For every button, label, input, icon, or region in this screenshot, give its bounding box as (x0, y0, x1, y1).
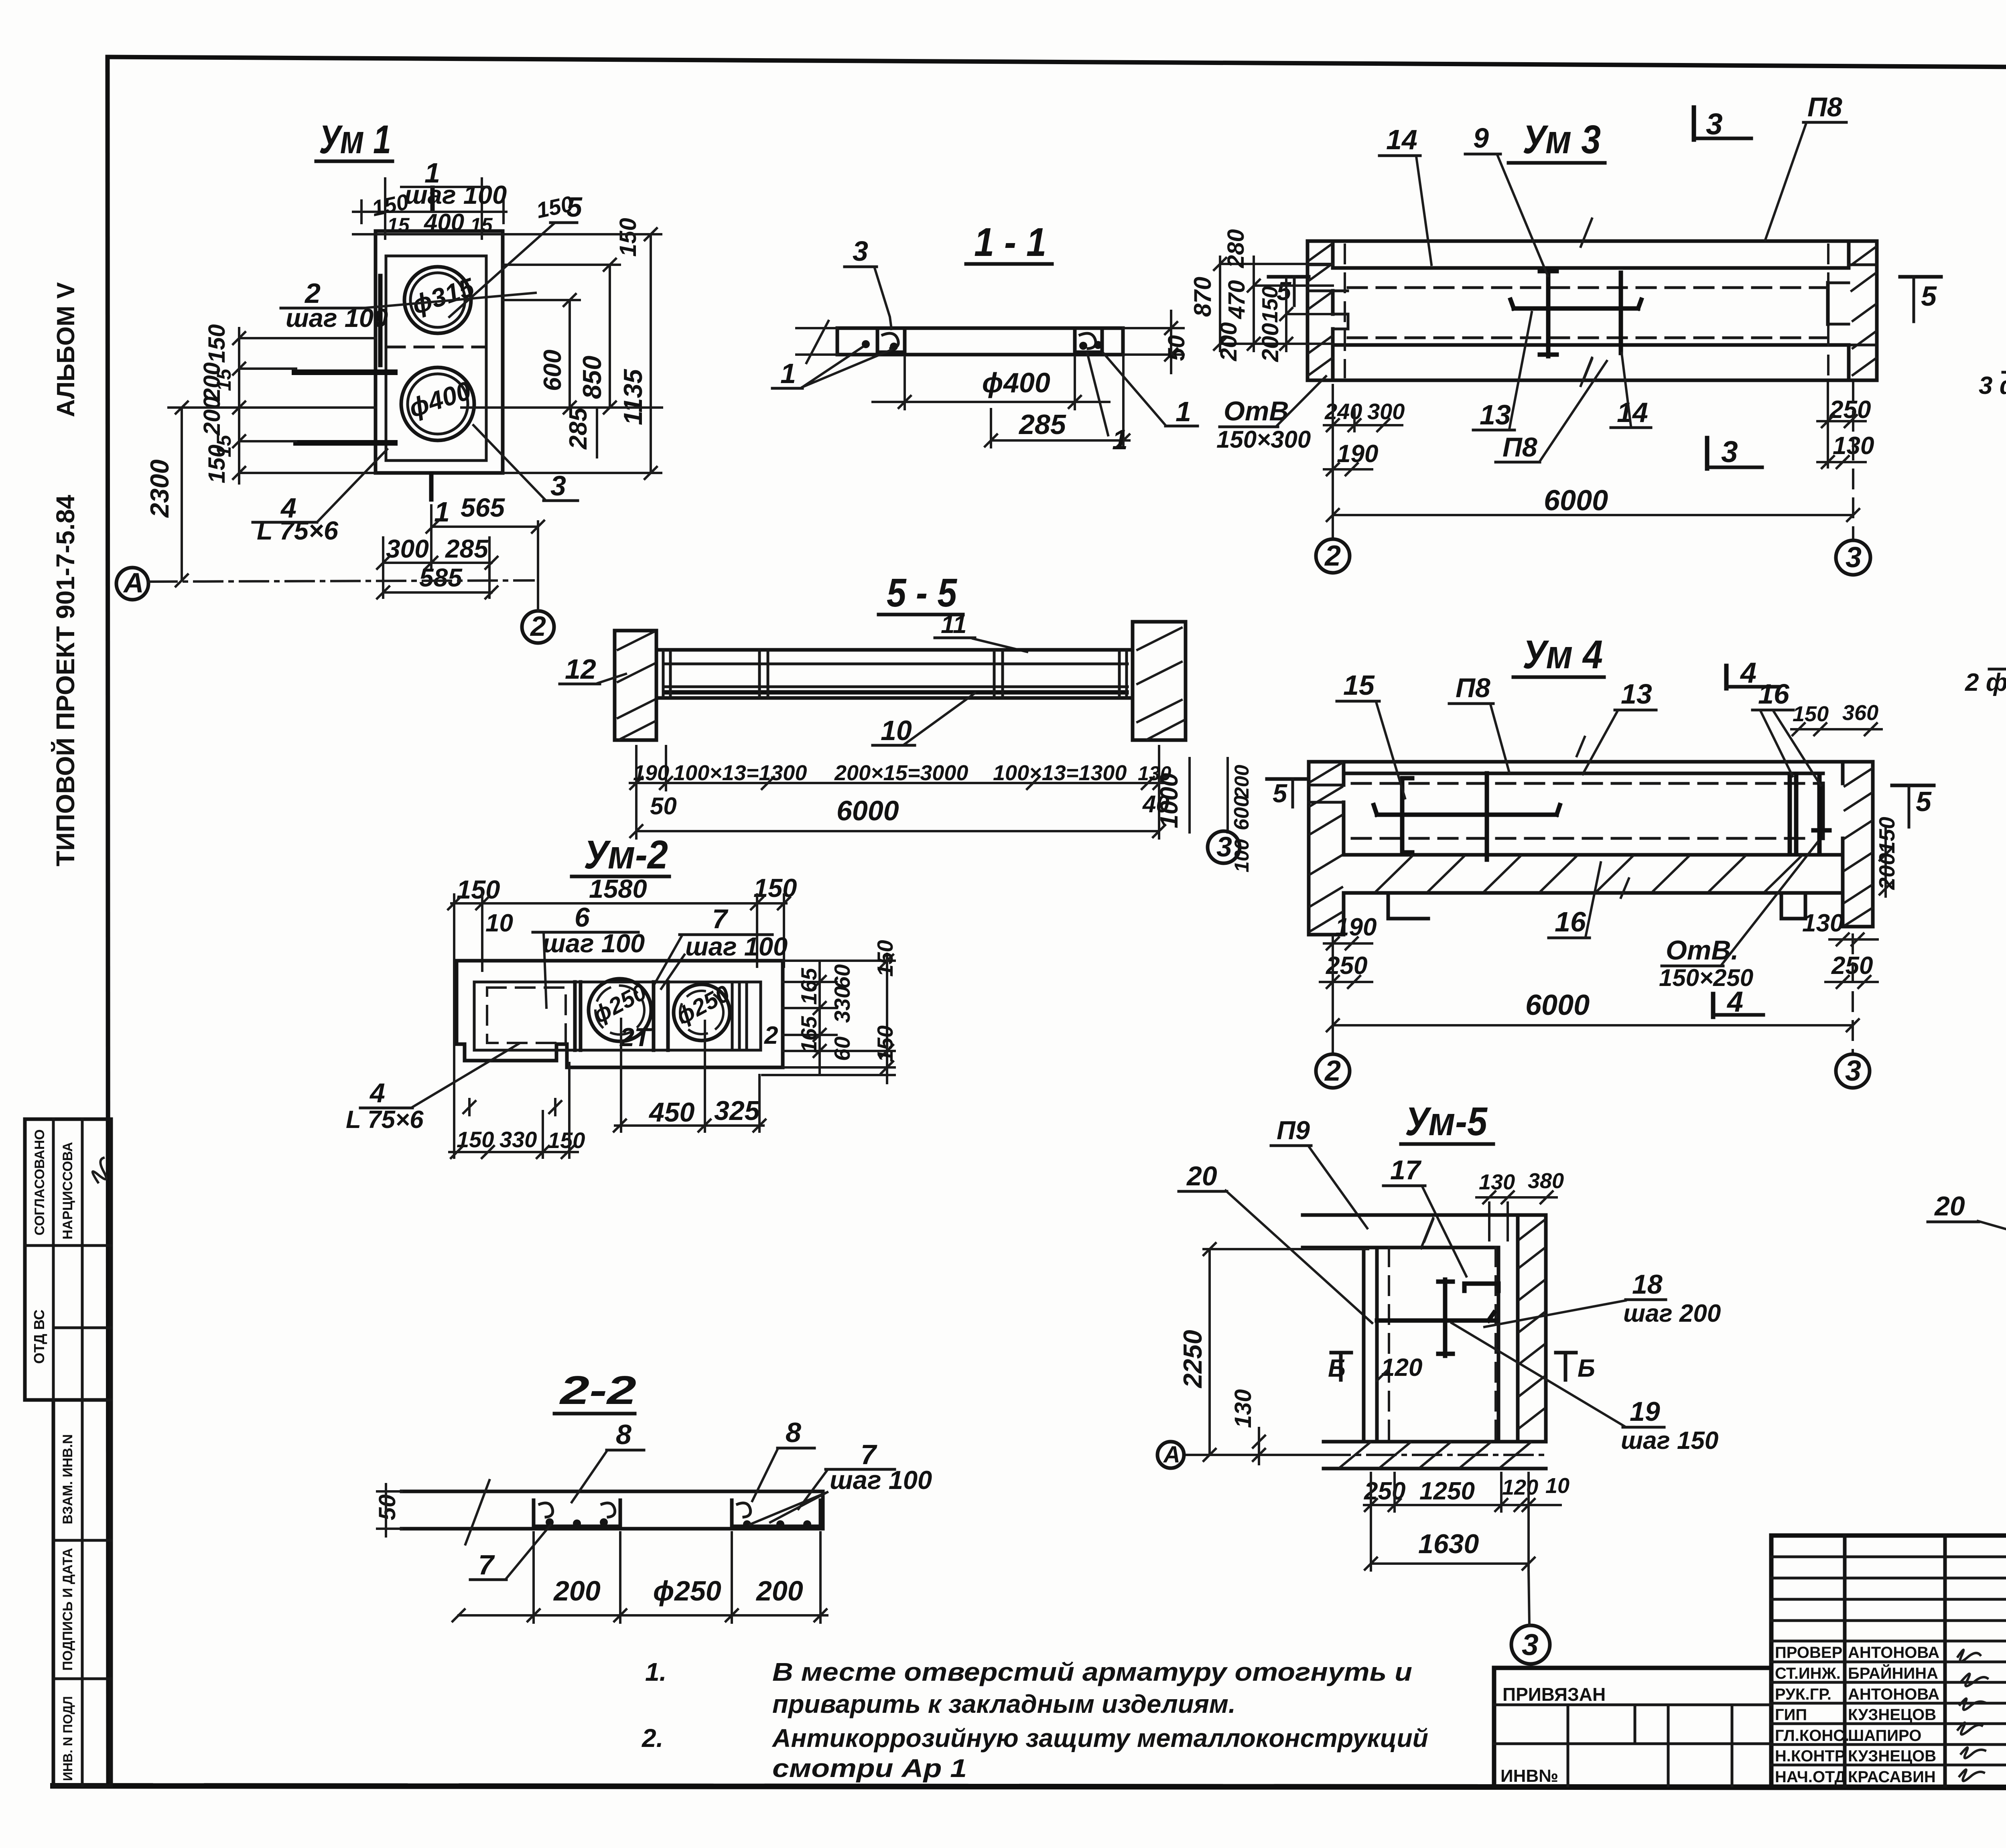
svg-text:3: 3 (1216, 831, 1232, 862)
svg-text:19: 19 (1630, 1396, 1660, 1427)
svg-text:3: 3 (1721, 435, 1738, 469)
left embedded channel (877, 330, 905, 352)
executors table verticals (1843, 1536, 1847, 1786)
svg-text:850: 850 (577, 356, 607, 399)
svg-text:ТИПОВОЙ ПРОЕКТ 901-7-5.84: ТИПОВОЙ ПРОЕКТ 901-7-5.84 (51, 495, 80, 866)
left sidebar vertical captions (51, 282, 80, 866)
axis 3 circle (1208, 831, 1240, 863)
svg-text:150×300: 150×300 (1216, 426, 1311, 453)
svg-text:Н.КОНТР: Н.КОНТР (1775, 1747, 1846, 1765)
right support hatch (1137, 628, 1184, 739)
svg-text:5: 5 (1916, 786, 1932, 817)
svg-text:120: 120 (1381, 1354, 1422, 1381)
right extension lines (461, 234, 662, 473)
svg-text:585: 585 (419, 563, 463, 592)
svg-text:Ум 1: Ум 1 (319, 117, 391, 162)
left inner wall (1364, 1248, 1377, 1442)
svg-text:200: 200 (199, 362, 225, 402)
top dim line 2 (353, 233, 506, 235)
svg-text:60: 60 (830, 1036, 855, 1061)
svg-text:Б: Б (1328, 1355, 1346, 1382)
svg-text:870: 870 (1189, 277, 1216, 317)
svg-text:150: 150 (615, 218, 641, 257)
svg-text:13: 13 (1480, 399, 1511, 430)
svg-text:В месте отверстий арматуру ото: В месте отверстий арматуру отогнуть и (772, 1657, 1412, 1686)
svg-text:Ум 4: Ум 4 (1523, 632, 1603, 677)
svg-text:П8: П8 (1807, 92, 1842, 122)
svg-text:Ум-2: Ум-2 (584, 832, 668, 877)
svg-text:шаг 100: шаг 100 (685, 932, 788, 961)
svg-text:1 - 1: 1 - 1 (974, 220, 1046, 265)
svg-text:450: 450 (648, 1097, 695, 1128)
svg-text:10: 10 (485, 909, 513, 937)
svg-text:шаг 150: шаг 150 (1621, 1427, 1718, 1454)
slab outline (402, 1491, 823, 1529)
left support wall (615, 631, 656, 740)
svg-text:6000: 6000 (837, 795, 899, 826)
svg-text:ВЗАМ. ИНВ.N: ВЗАМ. ИНВ.N (60, 1434, 75, 1524)
svg-text:5 - 5: 5 - 5 (887, 570, 957, 615)
svg-text:1.: 1. (645, 1657, 666, 1686)
svg-text:4: 4 (1740, 657, 1756, 689)
svg-text:3: 3 (1845, 1055, 1861, 1087)
main rebar thick (666, 690, 1127, 695)
left attach block (1494, 1704, 1771, 1706)
svg-text:НАЧ.ОТД: НАЧ.ОТД (1775, 1768, 1846, 1786)
svg-text:190: 190 (1335, 913, 1377, 941)
svg-text:150: 150 (1874, 817, 1899, 854)
section mark 5 right (1900, 275, 1941, 279)
title underline (1401, 1142, 1493, 1146)
svg-text:150: 150 (457, 875, 500, 904)
svg-text:100×13=1300: 100×13=1300 (673, 761, 807, 785)
svg-text:200: 200 (1230, 765, 1253, 799)
svg-text:ПРИВЯЗАН: ПРИВЯЗАН (1502, 1684, 1606, 1705)
stirrup 14 right (1619, 273, 1623, 353)
right inner wall (1498, 1215, 1518, 1442)
svg-text:150: 150 (204, 444, 230, 483)
rebar dots (743, 1520, 751, 1528)
extension verticals (1332, 937, 1334, 1054)
top wall band (1303, 1215, 1546, 1248)
svg-text:200×15=3000: 200×15=3000 (834, 761, 968, 785)
right support wall (1133, 622, 1186, 740)
slab outline (837, 328, 1123, 355)
right dim 600 (569, 300, 571, 408)
left support hatch (618, 632, 655, 739)
svg-text:2Т: 2Т (619, 1022, 652, 1052)
svg-text:285: 285 (564, 407, 592, 450)
svg-text:1: 1 (1112, 424, 1128, 455)
svg-text:3: 3 (853, 235, 868, 267)
svg-text:ɸ400: ɸ400 (982, 367, 1050, 398)
executors rows (1771, 1556, 2006, 1558)
section mark 5 right (1892, 784, 1934, 787)
mid dashed line (386, 346, 486, 349)
svg-text:L 75×6: L 75×6 (257, 516, 339, 545)
svg-text:3 ф16АШ: 3 ф16АШ (1979, 372, 2006, 400)
rebar dots right (1079, 342, 1087, 350)
svg-text:2: 2 (1324, 1055, 1341, 1087)
title block (1494, 1536, 2006, 1830)
beam inner top (663, 663, 1127, 665)
svg-text:1250: 1250 (1419, 1477, 1475, 1505)
axis circle 2 (1316, 539, 1350, 573)
left wall band (1309, 762, 1344, 935)
frame left line (108, 57, 108, 1786)
left break (465, 1480, 489, 1544)
bottom dim chain (630, 782, 1163, 784)
left embedded channel (534, 1500, 620, 1526)
floor step left (1388, 893, 1428, 919)
svg-text:приварить к закладным изделиям: приварить к закладным изделиям. (772, 1690, 1236, 1718)
svg-text:ОТД ВС: ОТД ВС (31, 1310, 47, 1364)
break marks (1577, 737, 1629, 898)
left dim chain (238, 328, 240, 483)
svg-text:7: 7 (478, 1549, 495, 1580)
svg-text:1135: 1135 (618, 369, 648, 425)
rebar dashed top (1352, 782, 1823, 785)
left dim chains (1220, 264, 1333, 344)
svg-text:280: 280 (1223, 229, 1249, 268)
svg-text:4: 4 (369, 1078, 385, 1108)
right embedded channel (732, 1500, 820, 1526)
svg-text:9: 9 (1473, 122, 1489, 154)
svg-text:325: 325 (714, 1095, 760, 1126)
svg-text:600: 600 (539, 350, 566, 391)
floor step right (1781, 893, 1805, 919)
last executors row (1775, 1768, 1936, 1786)
section mark 4 bottom (1711, 994, 1716, 1017)
svg-text:шаг 200: шаг 200 (1623, 1300, 1721, 1327)
svg-text:ГЛ.КОНС.: ГЛ.КОНС. (1775, 1727, 1849, 1745)
floor hatched band (1344, 891, 1843, 895)
svg-text:6000: 6000 (1525, 989, 1590, 1021)
svg-text:565: 565 (461, 493, 505, 522)
svg-text:250: 250 (1829, 396, 1871, 424)
left wall notch lines (1308, 265, 1348, 329)
right wall band (1828, 241, 1877, 380)
pipe ф250 right (674, 984, 730, 1041)
svg-text:200: 200 (199, 396, 225, 436)
plan inner boundary (474, 982, 761, 1050)
svg-text:120: 120 (1502, 1475, 1538, 1499)
title underline (879, 613, 963, 617)
rebar dots left (862, 340, 870, 348)
pipe ф400 outer (401, 367, 474, 440)
channel hook right (1080, 333, 1096, 349)
break marks (1581, 219, 1592, 386)
right dim chains (762, 961, 895, 1075)
outline inner wall (386, 256, 486, 460)
svg-text:400: 400 (424, 209, 464, 236)
hidden wall faces (1344, 245, 1346, 377)
hidden line left (1388, 1248, 1390, 1442)
svg-text:470: 470 (1224, 280, 1250, 319)
axis circle 3 (1836, 1054, 1870, 1088)
svg-text:200: 200 (1874, 853, 1899, 890)
right wall notch lines (1828, 265, 1877, 345)
svg-text:165: 165 (796, 1016, 821, 1053)
svg-text:2.: 2. (642, 1724, 663, 1753)
svg-text:П8: П8 (1456, 673, 1490, 703)
svg-text:600: 600 (1230, 795, 1253, 830)
svg-text:20: 20 (1934, 1191, 1965, 1221)
svg-text:8: 8 (786, 1417, 801, 1448)
svg-text:2: 2 (530, 611, 546, 642)
pipe ф315 outer (404, 267, 471, 333)
svg-text:Антикоррозийную защиту металло: Антикоррозийную защиту металлоконструкци… (772, 1724, 1428, 1753)
svg-text:ПРОВЕР: ПРОВЕР (1775, 1644, 1842, 1661)
svg-text:360: 360 (1842, 701, 1878, 725)
svg-text:330: 330 (499, 1127, 537, 1152)
channel hook left (883, 333, 898, 349)
dim 2300 vertical (181, 408, 183, 580)
axis dash-dot line (1184, 1454, 1549, 1456)
svg-text:5: 5 (566, 191, 583, 223)
svg-text:6: 6 (575, 902, 590, 933)
outline outer wall (376, 231, 503, 473)
bracket 17 (1464, 1284, 1498, 1291)
right thickness dim 50 (1123, 328, 1184, 355)
svg-text:3: 3 (1846, 542, 1862, 574)
axis circle А (1157, 1442, 1184, 1468)
right dim 1135 (650, 234, 652, 473)
axis А circle (116, 568, 148, 600)
svg-text:200: 200 (1216, 322, 1242, 361)
svg-text:18: 18 (1632, 1269, 1663, 1300)
axis 2 line (537, 521, 539, 611)
svg-text:П8: П8 (1502, 432, 1537, 463)
svg-text:50: 50 (1163, 335, 1190, 361)
notes text (642, 1657, 1428, 1783)
svg-text:150: 150 (873, 940, 897, 977)
right wall hatch (1845, 769, 1872, 925)
svg-text:ШАПИРО: ШАПИРО (1848, 1727, 1921, 1745)
svg-text:А: А (1163, 1442, 1180, 1468)
svg-text:3: 3 (1522, 1628, 1539, 1661)
svg-text:11: 11 (941, 611, 966, 639)
stirrup middle (1485, 773, 1489, 860)
axis circle 3 (1511, 1625, 1550, 1664)
title underline (1509, 161, 1605, 165)
section mark 5 left (1269, 275, 1309, 279)
beam inner bottom (663, 686, 1127, 688)
svg-text:А: А (123, 567, 144, 598)
svg-text:300: 300 (386, 534, 429, 563)
outline top edge (1309, 760, 1873, 764)
axis А line (148, 580, 534, 582)
top dim line (451, 902, 786, 905)
plate vertical mark (378, 276, 383, 365)
section marks Б (1331, 1353, 1351, 1380)
svg-text:150: 150 (204, 324, 230, 363)
title underline (316, 160, 392, 163)
signatures scribbles (1958, 1650, 1988, 1781)
svg-text:КУЗНЕЦОВ: КУЗНЕЦОВ (1848, 1706, 1936, 1724)
svg-text:60: 60 (830, 964, 855, 989)
svg-text:130: 130 (1802, 909, 1844, 937)
title underline (1513, 676, 1604, 679)
svg-text:130: 130 (1230, 1389, 1256, 1428)
svg-text:КРАСАВИН: КРАСАВИН (1848, 1768, 1936, 1786)
section mark 5 left (1267, 777, 1307, 781)
svg-text:2250: 2250 (1178, 1330, 1207, 1389)
pipe ф400 inner (408, 374, 468, 434)
pipe ф250 left (589, 979, 651, 1041)
right rotated dims (1884, 827, 1887, 897)
left wall hatch (1310, 763, 1342, 931)
svg-text:130: 130 (1479, 1170, 1515, 1194)
svg-text:200: 200 (755, 1575, 803, 1607)
left wall hatch (1309, 244, 1332, 375)
svg-text:10: 10 (1545, 1474, 1569, 1498)
sidebar stamp table (25, 1119, 113, 1786)
svg-text:100: 100 (1230, 839, 1253, 872)
svg-text:АЛЬБОМ V: АЛЬБОМ V (52, 282, 80, 417)
svg-text:16: 16 (1758, 678, 1790, 710)
svg-text:ɸ250: ɸ250 (653, 1575, 721, 1607)
svg-text:15: 15 (470, 214, 493, 236)
right wall hatch (1852, 247, 1876, 375)
svg-text:4: 4 (1726, 986, 1743, 1018)
right embedded channel (1075, 330, 1102, 352)
frame bottom line (53, 1786, 2006, 1788)
svg-text:АНТОНОВА: АНТОНОВА (1848, 1686, 1939, 1703)
svg-text:150: 150 (1793, 702, 1829, 726)
svg-text:240: 240 (1324, 399, 1362, 424)
channel hooks (540, 1503, 615, 1517)
title underline (572, 875, 669, 878)
svg-text:2-2: 2-2 (559, 1368, 636, 1413)
section mark 3 top (1692, 108, 1696, 140)
svg-text:шаг 100: шаг 100 (542, 929, 645, 958)
svg-text:Ум 3: Ум 3 (1523, 117, 1601, 162)
svg-text:СТ.ИНЖ.: СТ.ИНЖ. (1775, 1665, 1841, 1682)
embedded plate top (294, 369, 395, 375)
rebar dashed bottom (1352, 837, 1813, 840)
svg-text:150: 150 (873, 1025, 897, 1062)
svg-text:2: 2 (764, 1022, 778, 1049)
svg-text:смотри Ар 1: смотри Ар 1 (772, 1754, 967, 1783)
svg-text:50: 50 (374, 1494, 400, 1520)
stirrups (663, 651, 1127, 697)
hidden line right (1494, 1248, 1497, 1442)
tick crosses (463, 1099, 561, 1115)
outline bottom edge (1308, 379, 1877, 382)
svg-text:150: 150 (548, 1128, 585, 1153)
left extension lines (796, 321, 837, 363)
svg-text:1: 1 (780, 358, 796, 389)
axis 2 circle (522, 611, 554, 643)
svg-text:6000: 6000 (1544, 485, 1608, 517)
right wall band (1823, 762, 1873, 927)
svg-text:200: 200 (1257, 323, 1283, 362)
svg-text:165: 165 (796, 968, 821, 1005)
svg-text:L 75×6: L 75×6 (346, 1106, 424, 1134)
svg-text:3: 3 (1706, 107, 1723, 141)
plan outer boundary (457, 961, 783, 1067)
section mark 1 bottom (429, 474, 434, 499)
svg-text:13: 13 (1621, 678, 1652, 710)
svg-text:17: 17 (1390, 1155, 1422, 1185)
axis circle 2 (1316, 1054, 1350, 1088)
svg-text:СОГЛАСОВАНО: СОГЛАСОВАНО (32, 1129, 47, 1235)
svg-text:НАРЦИССОВА: НАРЦИССОВА (60, 1142, 75, 1239)
svg-text:5: 5 (1273, 779, 1287, 808)
svg-text:15: 15 (1343, 669, 1375, 701)
svg-text:2: 2 (1324, 540, 1341, 572)
signature (90, 1156, 113, 1185)
svg-text:200: 200 (553, 1575, 601, 1607)
rebar dots (546, 1518, 554, 1526)
dashed chamber (487, 988, 566, 1043)
outer contour (1494, 1536, 2006, 1786)
outline top edge (1308, 239, 1877, 243)
svg-text:1630: 1630 (1418, 1529, 1479, 1559)
embedded plate bottom (296, 440, 395, 446)
left wall band (1308, 241, 1333, 380)
svg-text:150: 150 (1257, 286, 1282, 323)
svg-text:7: 7 (712, 904, 729, 934)
section mark 4 top (1724, 666, 1729, 688)
hatch trio (732, 984, 747, 1049)
channel hook (737, 1503, 751, 1517)
left wall notch (1309, 785, 1344, 802)
section mark 3 bottom (1705, 438, 1710, 469)
svg-text:380: 380 (1528, 1169, 1564, 1193)
svg-text:14: 14 (1386, 124, 1417, 155)
svg-text:ИНВ. N ПОДЛ: ИНВ. N ПОДЛ (61, 1696, 75, 1781)
rebar 13 bar (1374, 805, 1560, 815)
svg-text:20: 20 (1186, 1161, 1217, 1191)
svg-text:300: 300 (1367, 399, 1405, 424)
svg-text:Б: Б (1578, 1355, 1595, 1382)
svg-text:100×13=1300: 100×13=1300 (993, 761, 1127, 785)
axis circle 3 (1836, 540, 1870, 575)
frame top line (108, 57, 2006, 70)
svg-text:шаг 100: шаг 100 (404, 180, 507, 209)
svg-text:КУЗНЕЦОВ: КУЗНЕЦОВ (1848, 1747, 1936, 1765)
svg-text:П9: П9 (1277, 1116, 1310, 1145)
top wall break (1421, 1218, 1433, 1248)
svg-text:16: 16 (1555, 906, 1586, 937)
svg-text:2 ф10АІ: 2 ф10АІ (1965, 669, 2006, 696)
svg-text:330: 330 (830, 986, 855, 1023)
rebar cross (1438, 1280, 1453, 1356)
right hatched band (1544, 1215, 1548, 1442)
beam outline (656, 650, 1133, 698)
top dim line 1 (353, 211, 506, 213)
svg-text:14: 14 (1617, 397, 1648, 428)
pipe ф315 inner (410, 273, 465, 327)
wall band between pipes (654, 982, 668, 1050)
svg-text:ОтВ.: ОтВ. (1666, 935, 1738, 966)
title underline (966, 262, 1052, 266)
svg-text:1: 1 (1176, 396, 1191, 427)
svg-text:БРАЙНИНА: БРАЙНИНА (1848, 1664, 1938, 1682)
svg-text:1000: 1000 (1155, 773, 1183, 828)
svg-text:АНТОНОВА: АНТОНОВА (1848, 1644, 1939, 1661)
right rebar pair 16 (1790, 774, 1829, 854)
rebar dashed top (1348, 286, 1828, 289)
svg-text:ГИП: ГИП (1775, 1706, 1807, 1724)
slab bottom line (1333, 343, 1849, 347)
slab top line (1333, 266, 1849, 270)
svg-text:ИНВ№: ИНВ№ (1500, 1766, 1558, 1786)
svg-text:Ум-5: Ум-5 (1405, 1099, 1488, 1144)
right dim 850 (609, 265, 611, 408)
